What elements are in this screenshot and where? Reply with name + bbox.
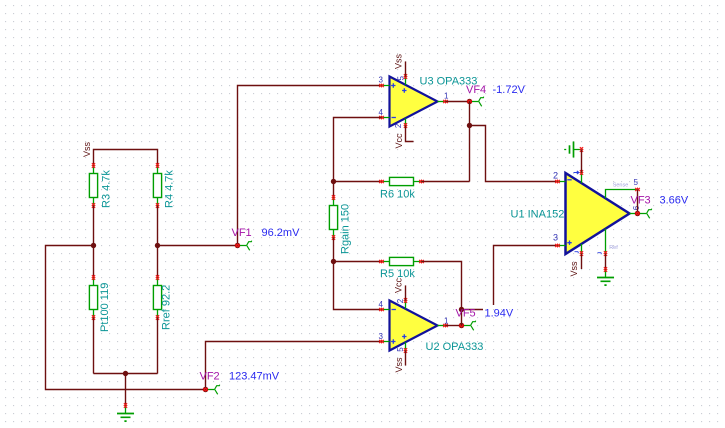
- svg-text:4: 4: [379, 300, 384, 309]
- svg-text:4: 4: [379, 108, 384, 117]
- wire VF4 node to R6 row: [469, 126, 471, 182]
- voltage probe VF5: [464, 321, 476, 331]
- label U1 pin 2: [553, 170, 558, 180]
- wire VF4 drop: [469, 102, 471, 126]
- op-amp U1 INA152: [555, 170, 640, 256]
- svg-text:3.66V: 3.66V: [660, 195, 689, 207]
- wire U3 Vcc stub: [406, 126, 414, 142]
- wire VF5 riser lower: [461, 310, 463, 326]
- wire branch to U1 pin2: [470, 126, 558, 182]
- label VF3 reading: [660, 195, 689, 207]
- svg-text:3: 3: [379, 75, 384, 84]
- voltage probe VF2: [208, 385, 220, 395]
- label Pt100 value: [99, 283, 111, 332]
- wire U3 -input to Rgain top: [334, 118, 382, 182]
- wire bridge top rail: [94, 150, 158, 166]
- label U3 name: [420, 76, 478, 88]
- label Rgain value: [340, 204, 352, 254]
- wire R5 right to VF5 riser: [422, 262, 462, 310]
- wire R6 left lead wire: [334, 181, 382, 183]
- wire U2 Vcc stub: [405, 286, 407, 301]
- wire node B to VF1: [158, 245, 238, 247]
- svg-text:96.2mV: 96.2mV: [262, 227, 301, 239]
- svg-text:R3 4.7k: R3 4.7k: [101, 170, 113, 208]
- label net Vss (U3): [394, 53, 404, 69]
- op-amp U3 OPA333: [379, 74, 448, 128]
- svg-text:Vss: Vss: [394, 357, 404, 373]
- resistor Rgain: [329, 195, 337, 240]
- svg-text:Rref 92.2: Rref 92.2: [161, 285, 173, 330]
- svg-text:123.47mV: 123.47mV: [229, 370, 280, 382]
- wire bridge bottom rail: [94, 373, 158, 375]
- junction VF4 node: [467, 99, 472, 104]
- label R3 value: [101, 170, 113, 208]
- label U1 pin 6: [632, 205, 641, 210]
- svg-text:Vcc: Vcc: [394, 277, 404, 293]
- svg-text:2: 2: [553, 170, 558, 180]
- resistor Pt100: [89, 275, 97, 320]
- svg-text:Sense: Sense: [613, 182, 629, 188]
- label U3 pin 4: [379, 108, 384, 117]
- label U2 pin 4: [379, 300, 384, 309]
- wire R5 left lead wire: [334, 261, 382, 263]
- svg-text:5: 5: [396, 76, 405, 81]
- wire Pt100 bottom: [93, 318, 95, 374]
- wire R6 right lead wire: [422, 181, 470, 183]
- label U1 pin 5: [634, 178, 639, 187]
- label net Vcc (U3): [394, 133, 404, 149]
- label VF2 reading: [229, 370, 280, 382]
- svg-text:Vss: Vss: [82, 141, 92, 157]
- svg-text:Pt100 119: Pt100 119: [99, 283, 111, 332]
- wire Rgain top wire: [333, 182, 335, 198]
- label net Vss (U1): [569, 261, 579, 277]
- svg-text:U2 OPA333: U2 OPA333: [426, 341, 484, 353]
- wire U2 output wire: [446, 325, 462, 327]
- label net Vcc (U2): [394, 277, 404, 293]
- svg-text:U1 INA152: U1 INA152: [511, 208, 565, 220]
- svg-text:VF1: VF1: [232, 227, 252, 239]
- wire R3 bottom to node A: [93, 206, 95, 246]
- svg-text:3: 3: [553, 232, 558, 242]
- op-amp U2 OPA333: [379, 298, 448, 353]
- wire R4 bottom to node B: [157, 206, 159, 246]
- label U3 pin 5: [396, 76, 405, 81]
- label U2 pin 1: [444, 317, 449, 326]
- wire node A loop to VF2: [46, 246, 206, 390]
- junction VF2 node: [203, 387, 208, 392]
- label U3 pin 2: [394, 123, 403, 128]
- label VF5 reading: [485, 307, 514, 319]
- junction VF5 node: [459, 323, 464, 328]
- label U1 Ref label: [609, 245, 618, 251]
- wire node B to Rref: [157, 246, 159, 278]
- label U2 pin 5: [396, 347, 405, 352]
- resistor R4: [153, 163, 161, 208]
- label net Vss (U2): [394, 357, 404, 373]
- wire Rref bottom: [157, 318, 159, 374]
- resistor R3: [89, 163, 97, 208]
- wire ground drop: [125, 374, 127, 406]
- label U1 Sense label: [613, 182, 629, 188]
- label R6 value: [380, 188, 415, 200]
- svg-text:Vss: Vss: [569, 261, 579, 277]
- resistor R5: [379, 257, 424, 265]
- junction VF1 node: [235, 243, 240, 248]
- svg-text:5: 5: [396, 347, 405, 352]
- wire VF1 riser to U3 +input: [238, 86, 382, 246]
- svg-text:VF5: VF5: [456, 307, 476, 319]
- svg-text:Ref: Ref: [609, 245, 618, 251]
- wire U1 Vss stub: [581, 254, 583, 270]
- wire sense to output: [637, 190, 639, 214]
- svg-text:Rgain 150: Rgain 150: [340, 204, 352, 254]
- label probe name VF2: [200, 370, 220, 382]
- junction node B (R4/Rref): [155, 243, 160, 248]
- wire U3 output to VF4: [446, 101, 470, 103]
- svg-text:-1.72V: -1.72V: [493, 84, 526, 96]
- svg-text:1: 1: [444, 317, 449, 326]
- voltage probe VF3: [640, 209, 652, 219]
- junction feedback branch node: [467, 123, 472, 128]
- svg-text:3: 3: [379, 332, 384, 341]
- label probe name VF4: [466, 84, 486, 96]
- label U3 pin 1: [444, 92, 449, 101]
- junction VF5 mid node: [459, 307, 464, 312]
- wire Rgain node to U2 -input: [334, 262, 382, 310]
- svg-text:R4 4.7k: R4 4.7k: [164, 170, 176, 208]
- svg-text:2: 2: [396, 298, 405, 303]
- label VF1 reading: [262, 227, 301, 239]
- svg-text:R6 10k: R6 10k: [380, 188, 415, 200]
- label U3 pin 3: [379, 75, 384, 84]
- svg-text:VF4: VF4: [466, 84, 486, 96]
- label U1 pin 3: [553, 232, 558, 242]
- label probe name VF3: [631, 195, 651, 207]
- label U2 pin 3: [379, 332, 384, 341]
- wire VF5 stub toward U1: [462, 309, 484, 311]
- wire U3 Vss stub: [405, 62, 407, 77]
- label U2 name: [426, 341, 484, 353]
- junction Rgain top node: [331, 179, 336, 184]
- label probe name VF5: [456, 307, 476, 319]
- wire node A to Pt100: [93, 246, 95, 278]
- svg-text:Vss: Vss: [394, 53, 404, 69]
- junction node A (R3/Pt100): [91, 243, 96, 248]
- wire Rgain bottom wire: [333, 238, 335, 262]
- junction Rgain bottom node: [331, 259, 336, 264]
- junction VF3 node: [635, 211, 640, 216]
- wire VF2 to U2 +input: [206, 342, 382, 390]
- voltage probe VF1: [240, 241, 252, 251]
- label Rref value: [161, 285, 173, 330]
- resistor Rref: [153, 275, 161, 320]
- svg-text:5: 5: [634, 178, 639, 187]
- svg-text:VF3: VF3: [631, 195, 651, 207]
- wire U2 Vss stub: [405, 351, 407, 366]
- wire U1 Ref to ground: [605, 254, 607, 270]
- label R5 value: [380, 268, 415, 280]
- svg-text:2: 2: [394, 123, 403, 128]
- label U2 pin 2: [396, 298, 405, 303]
- voltage probe VF4: [472, 97, 484, 107]
- label net Vss (bridge): [82, 141, 92, 157]
- svg-text:1.94V: 1.94V: [485, 307, 514, 319]
- label R4 value: [164, 170, 176, 208]
- junction bridge ground node: [123, 371, 128, 376]
- battery V+ source: [564, 142, 583, 158]
- resistor R6: [379, 177, 424, 185]
- wire battery to U1 V+: [581, 150, 583, 173]
- label VF4 reading: [493, 84, 526, 96]
- svg-text:Vcc: Vcc: [394, 133, 404, 149]
- wire U1 pin3 wire: [494, 246, 558, 306]
- ground U1 ref ground: [597, 267, 614, 285]
- label probe name VF1: [232, 227, 252, 239]
- label U1 name: [511, 208, 565, 220]
- ground bridge ground: [117, 403, 134, 421]
- svg-text:1: 1: [444, 92, 449, 101]
- svg-text:VF2: VF2: [200, 370, 220, 382]
